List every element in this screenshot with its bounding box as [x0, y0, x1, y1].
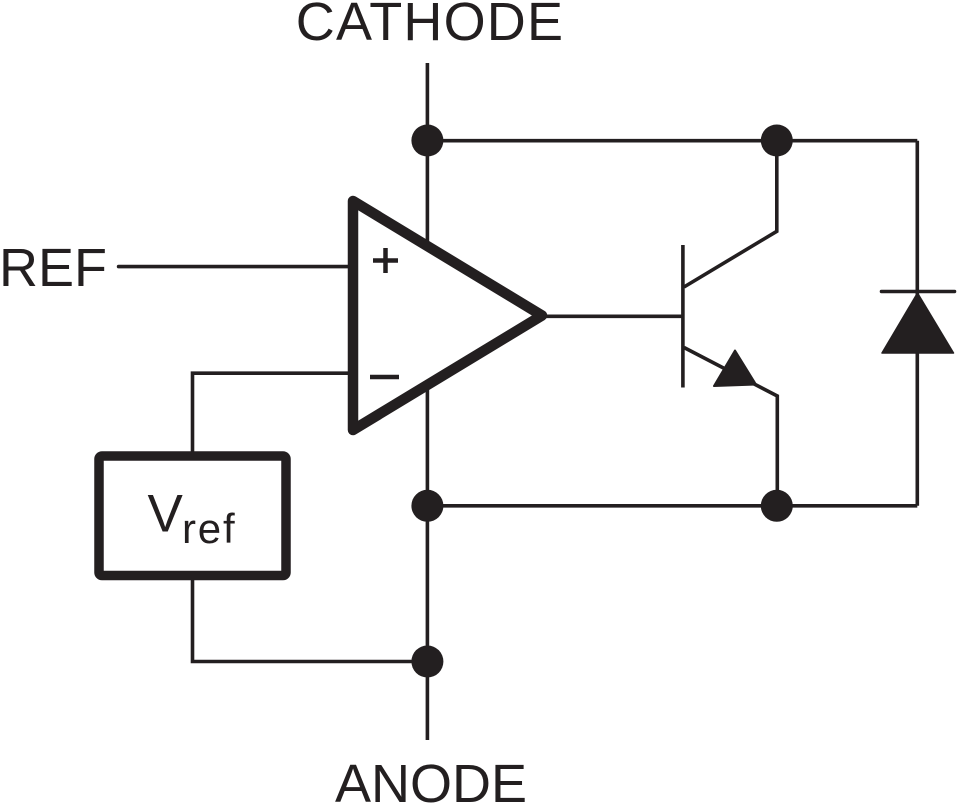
transistor Q1 emitter	[684, 348, 777, 506]
wire bottom rail	[427, 504, 917, 508]
wire right vertical (diode branch)	[915, 141, 919, 506]
junction dot anode / bottom rail	[411, 490, 443, 522]
junction dot collector / top rail	[761, 125, 793, 157]
wire cathode vertical through op-amp down to anode	[426, 141, 430, 741]
op-amp minus sign	[370, 375, 399, 380]
wire cathode lead vertical	[426, 63, 430, 141]
transistor Q1 emitter arrow	[714, 351, 756, 387]
diode D1 cathode bar	[881, 290, 954, 293]
wire Vref bottom to anode node	[193, 575, 428, 662]
svg-text:REF: REF	[0, 238, 107, 298]
junction dot cathode / top rail	[411, 125, 443, 157]
svg-text:V: V	[148, 485, 184, 544]
op-amp plus sign	[373, 248, 398, 273]
wire top rail	[427, 139, 917, 143]
transistor Q1 base bar	[681, 245, 685, 388]
diode D1 triangle	[882, 293, 954, 353]
junction dot emitter / bottom rail	[761, 490, 793, 522]
wire op-amp output to transistor base	[542, 314, 683, 318]
svg-text:CATHODE: CATHODE	[296, 0, 564, 52]
op-amp U1	[353, 201, 542, 430]
Vref box	[99, 456, 286, 576]
junction dot Vref return / anode	[411, 646, 443, 678]
wire REF input	[119, 265, 353, 269]
wire inverting input to Vref	[193, 373, 354, 456]
svg-text:ANODE: ANODE	[335, 754, 527, 808]
svg-text:ref: ref	[182, 505, 236, 552]
transistor Q1 collector	[684, 141, 777, 287]
